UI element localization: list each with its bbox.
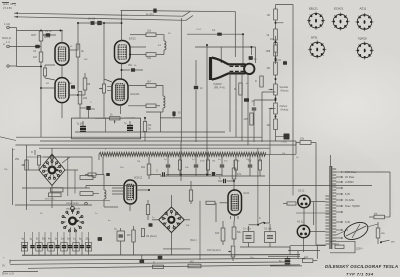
text bbox=[129, 37, 136, 41]
wire bbox=[105, 118, 107, 132]
socket AZ11 a bbox=[298, 190, 310, 208]
switch SW1 range resistors bbox=[45, 188, 63, 201]
tube V1 6F31 bbox=[55, 43, 69, 65]
input terminal J1 bbox=[4, 22, 10, 29]
potentiometer P posuv bbox=[269, 84, 289, 95]
wire bbox=[156, 50, 164, 55]
capacitor C1 bbox=[43, 30, 56, 37]
heater zigzag band bbox=[99, 152, 296, 156]
svg-text:25µ: 25µ bbox=[86, 239, 91, 241]
rotary switch SW3 bbox=[159, 207, 185, 233]
svg-text:4V AZ11: 4V AZ11 bbox=[345, 198, 355, 202]
svg-text:1k2: 1k2 bbox=[304, 256, 309, 259]
resistor R24 bbox=[270, 36, 277, 64]
svg-text:osv.: osv. bbox=[391, 242, 395, 244]
tube V4 ECH21 bbox=[112, 79, 128, 105]
terminal bbox=[85, 202, 88, 205]
svg-text:220V~: 220V~ bbox=[356, 248, 364, 251]
svg-text:vstup. ampl.: vstup. ampl. bbox=[66, 202, 79, 205]
CRT 7QR20 screen face bbox=[209, 57, 212, 80]
socket diagram S1 ECH21 bbox=[307, 7, 325, 30]
wire bbox=[121, 226, 134, 255]
wire bbox=[129, 54, 146, 56]
coil L1 bbox=[158, 41, 166, 50]
rotary switch SW2 bbox=[61, 207, 84, 232]
wire bbox=[104, 79, 112, 118]
potentiometer P ostrost bbox=[269, 103, 289, 114]
svg-text:AZ11: AZ11 bbox=[360, 7, 367, 11]
svg-text:1M: 1M bbox=[270, 38, 273, 41]
svg-text:2M: 2M bbox=[127, 234, 130, 237]
svg-text:2V: 2V bbox=[2, 265, 5, 268]
potentiometer P1 bbox=[99, 22, 106, 98]
wire bbox=[206, 201, 238, 222]
text freq note bbox=[2, 36, 12, 44]
coil L3 bbox=[104, 175, 106, 200]
wire bbox=[102, 157, 104, 175]
resistor R11 bbox=[146, 53, 156, 60]
resistor R23c bbox=[267, 119, 278, 130]
wire bbox=[270, 109, 276, 149]
wire rail y132 bbox=[75, 131, 225, 133]
wire bbox=[9, 46, 41, 48]
wire bbox=[160, 175, 265, 177]
text strip labels bbox=[164, 159, 250, 161]
wire rail y137 bbox=[16, 136, 262, 138]
wire bbox=[180, 18, 182, 142]
svg-text:ŽHAV. 6,3V: ŽHAV. 6,3V bbox=[2, 273, 15, 276]
capacitor C17b bbox=[158, 256, 163, 260]
capacitor C25n bbox=[160, 111, 181, 118]
capacitor C8 bbox=[121, 64, 144, 72]
coil L2 bbox=[163, 96, 165, 108]
wire deflection line B bbox=[14, 16, 193, 21]
wire CRT pins bbox=[230, 73, 248, 145]
component strip caps+resistors bbox=[166, 155, 262, 177]
capacitor C20 electrolytic bbox=[279, 256, 290, 264]
wire bbox=[130, 35, 146, 47]
wire bbox=[304, 202, 326, 253]
wire bbox=[275, 20, 284, 29]
wire bbox=[17, 31, 43, 68]
capacitor C10 bbox=[187, 29, 243, 36]
component input network bbox=[85, 173, 110, 176]
wire bbox=[163, 201, 200, 260]
svg-text:C: C bbox=[156, 170, 158, 173]
wire bbox=[275, 114, 277, 119]
capacitor C13 bbox=[150, 170, 181, 177]
wire main HT bus bbox=[86, 185, 372, 187]
wire bbox=[69, 57, 78, 95]
svg-text:1M8: 1M8 bbox=[266, 50, 271, 53]
svg-text:0,1: 0,1 bbox=[212, 29, 216, 32]
text corner notes bbox=[2, 2, 16, 10]
svg-text:TYP 7/1 534: TYP 7/1 534 bbox=[346, 271, 374, 276]
socket diagram S4 6F31 bbox=[308, 36, 326, 59]
svg-text:DÍLENSKÝ OSCILOGRAF TESLA: DÍLENSKÝ OSCILOGRAF TESLA bbox=[325, 264, 398, 269]
svg-text:ECH21: ECH21 bbox=[334, 7, 344, 11]
capacitor C2 bbox=[33, 45, 40, 53]
svg-text:4M: 4M bbox=[267, 67, 270, 70]
svg-text:C4 C5: C4 C5 bbox=[88, 18, 96, 21]
svg-text:Souhlas: Souhlas bbox=[280, 86, 289, 89]
capacitor C5 bbox=[95, 21, 121, 25]
svg-text:var: var bbox=[12, 148, 15, 151]
wire bbox=[52, 188, 190, 255]
socket diagram S3 AZ11 bbox=[355, 7, 373, 32]
wire rail 3 bbox=[28, 265, 300, 269]
component lamp bbox=[376, 222, 385, 244]
resistor R35 bbox=[215, 221, 225, 245]
wire bbox=[258, 92, 276, 225]
svg-text:n.: n. bbox=[14, 4, 16, 7]
wire bbox=[254, 99, 277, 106]
resistor R4 bbox=[43, 65, 55, 80]
wire divider rule 1 bbox=[16, 144, 297, 146]
wire bbox=[13, 145, 27, 210]
tube V5 6CK21 bbox=[124, 180, 137, 204]
wire bbox=[40, 87, 55, 89]
divider unit box bbox=[72, 118, 141, 139]
wire bbox=[15, 202, 92, 205]
resistor R13 bbox=[128, 104, 160, 108]
wire bbox=[275, 95, 277, 103]
CRT funnel top bbox=[212, 58, 246, 65]
wire bbox=[275, 56, 277, 62]
wire bbox=[156, 86, 163, 97]
capacitor C7 bbox=[80, 106, 96, 111]
resistor R27 bbox=[244, 113, 254, 125]
svg-text:1M (Zesíl.): 1M (Zesíl.) bbox=[146, 236, 157, 238]
wire bbox=[268, 246, 326, 266]
wire bbox=[9, 260, 11, 264]
wire bbox=[293, 141, 330, 213]
resistor R34 bbox=[232, 160, 242, 179]
svg-text:R: R bbox=[31, 151, 33, 154]
svg-text:25n: 25n bbox=[128, 64, 133, 67]
svg-text:1M: 1M bbox=[137, 161, 140, 163]
wire divider rule 2 bbox=[39, 148, 270, 155]
svg-text:L.Pos.: L.Pos. bbox=[281, 142, 288, 144]
rotary switch SW1 bbox=[39, 154, 65, 186]
wire bbox=[242, 33, 244, 64]
wire bbox=[121, 11, 123, 41]
capacitor bank bbox=[21, 240, 91, 255]
text rail labels bbox=[2, 257, 15, 276]
resistor R14 bbox=[143, 117, 152, 141]
wire bbox=[234, 40, 236, 57]
resistor R31 bbox=[80, 176, 93, 196]
svg-text:(RR, P-H): (RR, P-H) bbox=[214, 87, 225, 90]
wire bbox=[206, 150, 208, 176]
wire rail 2 bbox=[10, 262, 288, 264]
svg-text:6F31: 6F31 bbox=[44, 35, 50, 39]
svg-text:C+ 16n: C+ 16n bbox=[243, 228, 251, 231]
tube V3 EF22 bbox=[115, 41, 131, 64]
wire bbox=[336, 224, 378, 235]
wire bbox=[240, 224, 290, 255]
wire bbox=[330, 155, 332, 167]
resistor R30 bbox=[31, 151, 41, 165]
capacitor blob bbox=[149, 223, 153, 226]
phase ellipse bbox=[342, 219, 371, 243]
wire bbox=[146, 108, 163, 132]
socket diagram S2 EF22 bbox=[331, 7, 349, 31]
resistor R39 bbox=[153, 262, 164, 269]
svg-text:C 0,1: C 0,1 bbox=[196, 29, 202, 31]
svg-text:7QR20: 7QR20 bbox=[358, 37, 368, 41]
svg-text:ECH21: ECH21 bbox=[131, 92, 140, 96]
text bbox=[66, 208, 81, 211]
resistor R39b bbox=[188, 261, 201, 268]
svg-text:žhav. 7QR20: žhav. 7QR20 bbox=[345, 204, 360, 208]
wire bbox=[232, 257, 234, 261]
resistor R41 bbox=[369, 213, 385, 219]
potentiometer P2 bbox=[110, 114, 121, 124]
wire bbox=[85, 186, 87, 189]
svg-text:1M: 1M bbox=[267, 14, 270, 17]
transformer tap labels bbox=[345, 170, 360, 232]
svg-text:6CK21: 6CK21 bbox=[134, 176, 143, 180]
mains switch bbox=[356, 240, 395, 250]
capacitor C4n2 bbox=[244, 98, 255, 103]
svg-text:7µ 50V: 7µ 50V bbox=[77, 124, 85, 126]
resistor R42 bbox=[302, 256, 317, 262]
text row values bbox=[200, 161, 262, 163]
capacitor C4n bbox=[249, 56, 258, 61]
svg-text:200: 200 bbox=[83, 97, 88, 100]
wire bbox=[40, 41, 42, 52]
wire bbox=[180, 142, 182, 181]
potentiometer P synchr bbox=[207, 246, 235, 257]
transformer taps bbox=[336, 171, 343, 239]
svg-text:AZ 11: AZ 11 bbox=[297, 221, 304, 224]
svg-text:Ostření: Ostření bbox=[280, 105, 288, 108]
text CRT label bbox=[213, 82, 225, 90]
resistor R21 bbox=[267, 29, 278, 40]
resistor R38 bbox=[141, 229, 144, 237]
capacitor C4 bbox=[77, 21, 95, 25]
svg-text:6L31: 6L31 bbox=[244, 191, 250, 195]
svg-text:ke stín.: ke stín. bbox=[146, 13, 154, 16]
text sprinkle bbox=[4, 29, 299, 259]
wire bbox=[22, 186, 110, 201]
svg-text:27.4.59: 27.4.59 bbox=[3, 6, 12, 10]
wire bbox=[156, 35, 164, 41]
svg-text:4V žhav.: 4V žhav. bbox=[345, 175, 355, 179]
resistor R33b bbox=[146, 200, 157, 238]
socket AZ11 b bbox=[297, 221, 310, 238]
resistor R2 bbox=[33, 52, 43, 62]
capacitor C18 C19 bbox=[243, 228, 276, 243]
resistor R1 bbox=[31, 31, 47, 41]
svg-text:ž: ž bbox=[105, 149, 106, 151]
text title bbox=[325, 264, 398, 276]
wire bbox=[95, 105, 135, 118]
wire bbox=[276, 5, 294, 10]
CRT gun cap bbox=[244, 64, 254, 74]
wire bbox=[275, 75, 277, 84]
wire bbox=[27, 148, 71, 167]
svg-text:6,3V: 6,3V bbox=[345, 220, 351, 224]
wire scan diagonal bbox=[0, 137, 16, 141]
svg-text:0k7: 0k7 bbox=[147, 81, 152, 84]
wire bbox=[28, 157, 99, 196]
wire rail 1 bbox=[10, 258, 305, 260]
capacitor C9b electrolytic bbox=[124, 121, 133, 130]
tube V6 EL bbox=[228, 190, 242, 215]
svg-text:osv.: osv. bbox=[381, 232, 386, 235]
wire bbox=[290, 246, 317, 259]
wire bbox=[275, 40, 277, 45]
svg-text:1 V: 1 V bbox=[6, 40, 10, 44]
text bbox=[131, 92, 140, 96]
svg-text:7QR20: 7QR20 bbox=[213, 82, 222, 86]
resistor R40 bbox=[296, 138, 316, 145]
capacitor C16 bbox=[98, 237, 102, 241]
resistor R7 anode bbox=[76, 44, 84, 57]
wire deflection line A bbox=[14, 12, 190, 17]
capacitor C13b bbox=[275, 59, 288, 65]
wire bbox=[196, 45, 207, 150]
diode D1 bbox=[181, 172, 222, 176]
mains resistor bbox=[335, 244, 344, 249]
tube V2 6F31 bbox=[55, 78, 69, 103]
capacitor C15 bbox=[114, 228, 125, 242]
text bbox=[244, 191, 250, 195]
text bbox=[44, 35, 50, 39]
capacitor C17 bbox=[140, 255, 145, 263]
wire cap bank bus bbox=[22, 254, 300, 257]
CRT electrodes bbox=[230, 66, 245, 71]
resistor R25 bbox=[234, 83, 242, 95]
svg-text:žár.: žár. bbox=[374, 213, 378, 216]
svg-text:1 kΩ: 1 kΩ bbox=[4, 22, 10, 26]
wire bbox=[25, 232, 89, 240]
node bbox=[206, 44, 208, 46]
capacitor C9 electrolytic bbox=[77, 121, 87, 131]
svg-text:6,3V: 6,3V bbox=[345, 192, 351, 196]
wire bbox=[61, 31, 63, 43]
svg-text:(Fokus): (Fokus) bbox=[281, 110, 289, 112]
svg-text:1M5: 1M5 bbox=[244, 119, 249, 121]
wire bbox=[343, 172, 390, 217]
transformer windings bbox=[325, 169, 336, 244]
svg-text:1k5 (Synchr.): 1k5 (Synchr.) bbox=[207, 249, 221, 252]
resistor R12 bbox=[128, 81, 156, 88]
svg-text:C1 2n: C1 2n bbox=[45, 30, 52, 33]
svg-text:1M: 1M bbox=[212, 161, 215, 163]
wire bbox=[69, 23, 78, 50]
transformer core bbox=[330, 166, 332, 249]
capacitor C14 bbox=[218, 177, 234, 183]
svg-text:AZ 11: AZ 11 bbox=[298, 190, 305, 193]
input terminal J2 bbox=[3, 42, 9, 48]
capacitor bank labels bbox=[22, 239, 91, 241]
wire rail y141 bbox=[40, 140, 296, 142]
connector LP bbox=[276, 134, 290, 144]
resistor R9 bbox=[78, 92, 88, 105]
resistor R33 bbox=[189, 181, 192, 204]
capacitor C2n bbox=[194, 86, 204, 142]
svg-text:6F31: 6F31 bbox=[311, 36, 318, 40]
node a bbox=[40, 30, 62, 32]
resistor R26 bbox=[255, 76, 263, 87]
wire bbox=[99, 141, 296, 160]
svg-text:1M: 1M bbox=[33, 55, 37, 59]
svg-text:A: A bbox=[3, 42, 5, 46]
wire screen lead bbox=[121, 9, 236, 41]
resistor R37 bbox=[127, 230, 135, 242]
CRT funnel bottom bbox=[212, 73, 246, 79]
wire bbox=[9, 28, 16, 31]
wire bbox=[112, 188, 150, 211]
svg-text:(Sluč.): (Sluč.) bbox=[190, 240, 197, 242]
wire bbox=[17, 30, 64, 32]
svg-text:poj.: poj. bbox=[336, 244, 340, 246]
text bbox=[134, 176, 143, 180]
svg-text:C0 16n: C0 16n bbox=[264, 228, 272, 231]
resistor R36 bbox=[232, 221, 242, 245]
svg-text:4M7: 4M7 bbox=[31, 33, 37, 37]
resistor R8 bbox=[77, 73, 91, 96]
potentiometer P rozsah bbox=[15, 158, 28, 170]
svg-text:2×350V: 2×350V bbox=[345, 180, 354, 184]
svg-text:EBL21: EBL21 bbox=[309, 7, 318, 11]
switch S2 bbox=[190, 217, 270, 242]
svg-text:C: C bbox=[219, 177, 221, 180]
wire rail 4 bbox=[3, 271, 38, 273]
capacitor C6 bbox=[69, 82, 75, 89]
svg-text:(Posuv): (Posuv) bbox=[281, 91, 289, 93]
svg-text:EF22: EF22 bbox=[129, 37, 136, 41]
wire bbox=[233, 179, 235, 191]
svg-text:25n: 25n bbox=[91, 108, 96, 111]
wire bbox=[275, 130, 277, 142]
mains loop bbox=[330, 241, 355, 253]
svg-text:50Hz př.: 50Hz př. bbox=[2, 36, 12, 40]
wire bbox=[41, 67, 80, 137]
wire bbox=[195, 46, 255, 63]
wire bbox=[104, 199, 118, 207]
resistor R32 bbox=[141, 157, 151, 179]
wire bbox=[61, 65, 63, 77]
resistor R22 bbox=[266, 45, 278, 56]
socket diagram S5 7QR20 bbox=[356, 37, 374, 60]
resistor R10 bbox=[146, 30, 156, 37]
capacitor C12 bbox=[252, 108, 257, 142]
wire bbox=[296, 143, 325, 246]
wire bbox=[88, 110, 90, 118]
svg-text:1k5: 1k5 bbox=[215, 232, 220, 235]
resistor R22b bbox=[267, 62, 278, 75]
wire HT rail right bbox=[292, 5, 294, 142]
wire bbox=[121, 64, 123, 80]
resistor R43 bbox=[283, 202, 296, 205]
text bbox=[88, 18, 96, 21]
terminal gnd bbox=[7, 65, 17, 67]
resistor R20 bbox=[267, 9, 278, 20]
